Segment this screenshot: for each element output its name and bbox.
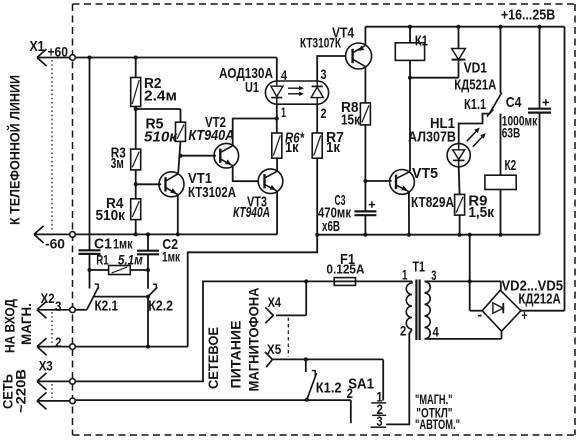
svg-text:510к: 510к [96, 207, 126, 224]
svg-text:К1.1: К1.1 [464, 96, 486, 113]
svg-text:3м: 3м [111, 155, 124, 172]
svg-text:1мк: 1мк [162, 249, 181, 265]
svg-text:x6В: x6В [322, 218, 340, 235]
svg-text:3: 3 [321, 66, 327, 82]
svg-text:2: 2 [55, 334, 62, 350]
svg-text:КТ940А: КТ940А [188, 127, 234, 144]
svg-text:510к: 510к [144, 128, 178, 145]
svg-text:МАГНИТОФОНА: МАГНИТОФОНА [246, 288, 262, 392]
svg-text:КД212А: КД212А [518, 291, 560, 308]
svg-text:КТ3102А: КТ3102А [188, 184, 236, 201]
svg-text:Х1: Х1 [30, 38, 45, 55]
svg-text:1к: 1к [285, 139, 299, 156]
svg-text:КТ940А: КТ940А [233, 204, 270, 221]
svg-text:3: 3 [377, 413, 383, 429]
svg-text:+16...25В: +16...25В [501, 7, 555, 24]
svg-text:СЕТЕВОЕ: СЕТЕВОЕ [205, 327, 221, 389]
svg-text:К1: К1 [415, 33, 428, 50]
svg-text:2.4м: 2.4м [144, 88, 177, 105]
svg-text:1,5к: 1,5к [468, 204, 494, 221]
svg-text:3: 3 [55, 298, 62, 314]
svg-text:2: 2 [347, 385, 354, 401]
svg-text:C4: C4 [506, 94, 522, 111]
svg-text:"АВТОМ.": "АВТОМ." [415, 416, 460, 432]
svg-text:1к: 1к [326, 139, 340, 156]
svg-text:КТ829А: КТ829А [411, 194, 454, 211]
svg-text:15к: 15к [341, 112, 360, 129]
svg-text:Х5: Х5 [267, 341, 281, 357]
svg-text:К2.1: К2.1 [95, 298, 119, 315]
svg-text:Х4: Х4 [268, 294, 282, 310]
svg-text:2: 2 [321, 105, 327, 121]
svg-text:1мк: 1мк [113, 236, 133, 252]
svg-text:VT5: VT5 [412, 165, 438, 182]
svg-text:С1: С1 [94, 236, 112, 253]
svg-text:3: 3 [431, 267, 436, 283]
svg-text:~220В: ~220В [13, 369, 29, 413]
svg-text:НА ВХОД: НА ВХОД [2, 299, 18, 353]
svg-text:К2.2: К2.2 [148, 298, 173, 315]
svg-text:U1: U1 [245, 79, 259, 96]
svg-text:ПИТАНИЕ: ПИТАНИЕ [228, 321, 244, 389]
svg-text:5.1м: 5.1м [118, 252, 143, 268]
svg-text:КД521А: КД521А [454, 77, 496, 94]
svg-text:КТ3107К: КТ3107К [300, 35, 341, 51]
svg-text:+60: +60 [48, 44, 69, 60]
svg-text:К ТЕЛЕФОННОЙ ЛИНИИ: К ТЕЛЕФОННОЙ ЛИНИИ [6, 75, 23, 225]
svg-text:+: + [522, 307, 528, 323]
svg-text:Х3: Х3 [39, 358, 53, 374]
svg-text:-60: -60 [45, 236, 65, 252]
svg-text:АЛ307В: АЛ307В [408, 129, 456, 146]
svg-text:4: 4 [281, 67, 287, 83]
svg-text:0.125А: 0.125А [326, 262, 365, 277]
svg-text:МАГН.: МАГН. [18, 303, 34, 345]
svg-text:Х2: Х2 [41, 290, 55, 306]
svg-text:4: 4 [433, 324, 439, 340]
svg-text:R1: R1 [96, 252, 109, 268]
svg-text:К2: К2 [505, 157, 517, 174]
svg-text:1: 1 [281, 104, 286, 120]
svg-text:К1.2: К1.2 [316, 380, 342, 397]
svg-text:63В: 63В [502, 125, 520, 141]
svg-text:2: 2 [400, 323, 406, 339]
svg-text:VD1: VD1 [464, 60, 487, 77]
svg-text:-: - [477, 307, 482, 324]
svg-text:1: 1 [402, 267, 408, 283]
svg-text:Т1: Т1 [413, 259, 426, 276]
